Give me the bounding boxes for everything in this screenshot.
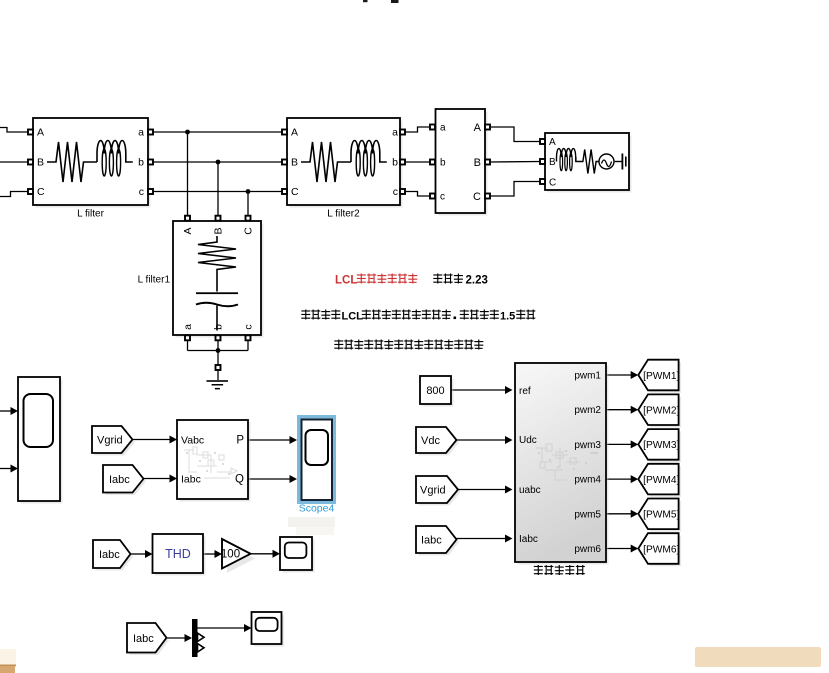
svg-text:Scope4: Scope4	[299, 503, 335, 515]
svg-text:A: A	[474, 122, 482, 134]
svg-text:a: a	[182, 324, 194, 330]
svg-text:A: A	[37, 127, 44, 139]
svg-text:L filter2: L filter2	[327, 209, 360, 220]
svg-text:A: A	[549, 137, 556, 148]
svg-text:LCL: LCL	[335, 275, 357, 287]
svg-text:[PWM5]: [PWM5]	[643, 510, 679, 521]
svg-text:Iabc: Iabc	[519, 534, 538, 545]
svg-text:c: c	[440, 192, 445, 203]
svg-text:a: a	[138, 127, 144, 139]
svg-text:A: A	[291, 127, 298, 139]
svg-text:a: a	[392, 127, 398, 139]
svg-text:[PWM1]: [PWM1]	[643, 371, 679, 382]
svg-text:c: c	[139, 186, 144, 198]
svg-text:Iabc: Iabc	[99, 549, 120, 561]
svg-text:Vabc: Vabc	[181, 435, 204, 447]
svg-text:2.23: 2.23	[466, 275, 488, 287]
svg-text:a: a	[440, 123, 446, 134]
svg-text:Iabc: Iabc	[133, 633, 154, 645]
svg-text:B: B	[213, 227, 225, 234]
svg-text:[PWM3]: [PWM3]	[643, 440, 679, 451]
svg-text:Q: Q	[235, 474, 244, 486]
svg-text:C: C	[291, 186, 299, 198]
svg-text:P: P	[236, 435, 244, 447]
svg-text:b: b	[392, 157, 398, 169]
svg-text:Vgrid: Vgrid	[97, 435, 123, 447]
svg-text:ref: ref	[519, 386, 531, 397]
svg-text:Vdc: Vdc	[421, 435, 440, 447]
svg-text:800: 800	[426, 385, 444, 397]
svg-text:C: C	[549, 178, 556, 189]
svg-text:C: C	[243, 227, 255, 235]
svg-text:pwm6: pwm6	[574, 544, 601, 555]
svg-text:A: A	[182, 227, 194, 234]
svg-text:pwm2: pwm2	[574, 405, 601, 416]
svg-text:b: b	[138, 157, 144, 169]
svg-text:Udc: Udc	[519, 435, 537, 446]
svg-text:C: C	[473, 191, 481, 203]
svg-text:LCL: LCL	[342, 311, 364, 323]
svg-text:C: C	[37, 186, 45, 198]
svg-text:100: 100	[221, 549, 240, 561]
svg-text:c: c	[243, 324, 255, 329]
svg-text:[PWM4]: [PWM4]	[643, 475, 679, 486]
svg-text:[PWM6]: [PWM6]	[643, 544, 679, 555]
svg-text:L filter: L filter	[77, 209, 105, 220]
svg-text:L filter1: L filter1	[138, 275, 171, 286]
svg-text:Iabc: Iabc	[109, 474, 130, 486]
svg-text:B: B	[474, 157, 481, 169]
svg-text:1.5: 1.5	[500, 311, 515, 323]
svg-text:c: c	[393, 186, 398, 198]
svg-text:B: B	[291, 157, 298, 169]
svg-text:Iabc: Iabc	[181, 474, 201, 486]
svg-text:B: B	[37, 157, 44, 169]
svg-text:[PWM2]: [PWM2]	[643, 406, 679, 417]
svg-text:b: b	[213, 324, 225, 330]
svg-text:b: b	[440, 158, 446, 169]
svg-text:uabc: uabc	[519, 485, 541, 496]
svg-text:pwm1: pwm1	[574, 371, 601, 382]
svg-text:pwm3: pwm3	[574, 440, 601, 451]
svg-text:Iabc: Iabc	[421, 535, 442, 547]
svg-text:THD: THD	[165, 547, 191, 561]
svg-text:Vgrid: Vgrid	[420, 485, 446, 497]
svg-text:pwm5: pwm5	[574, 509, 601, 520]
svg-text:pwm4: pwm4	[574, 475, 601, 486]
svg-text:B: B	[549, 157, 556, 168]
